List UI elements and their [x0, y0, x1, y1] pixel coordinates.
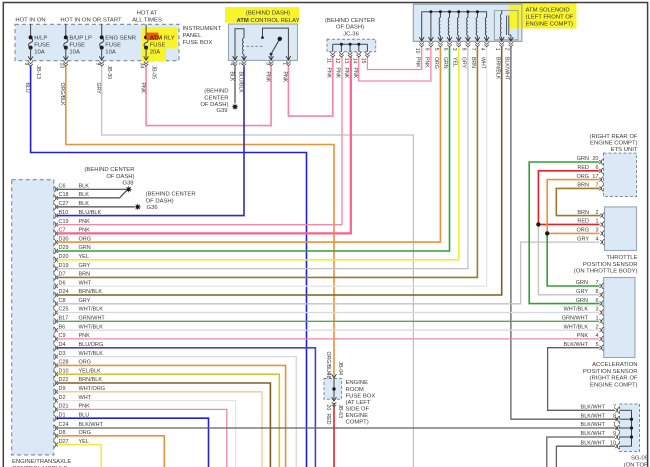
svg-text:ENGINE COMPT): ENGINE COMPT) — [590, 141, 637, 147]
svg-text:PNK: PNK — [577, 333, 589, 339]
svg-text:BLK: BLK — [79, 192, 90, 198]
svg-text:20A: 20A — [150, 50, 161, 56]
svg-text:G39: G39 — [216, 108, 227, 114]
svg-text:D21: D21 — [59, 404, 69, 410]
svg-text:14: 14 — [352, 58, 358, 64]
svg-text:4: 4 — [228, 62, 234, 65]
svg-text:D24: D24 — [59, 289, 69, 295]
svg-text:3: 3 — [595, 307, 598, 313]
svg-text:PNK: PNK — [282, 72, 288, 83]
svg-text:GRN/WHT: GRN/WHT — [562, 316, 589, 322]
svg-text:ORG: ORG — [79, 430, 92, 436]
svg-text:C8: C8 — [59, 298, 66, 304]
svg-text:PNK: PNK — [79, 333, 91, 339]
svg-text:BLK/WHT: BLK/WHT — [581, 431, 606, 437]
svg-text:OF DASH): OF DASH) — [200, 102, 228, 108]
svg-text:D2: D2 — [59, 395, 66, 401]
svg-text:2: 2 — [595, 210, 598, 216]
svg-text:9: 9 — [613, 431, 616, 437]
svg-text:GRY: GRY — [95, 83, 101, 95]
svg-text:GRN: GRN — [79, 245, 91, 251]
svg-text:FUSE BOX: FUSE BOX — [183, 40, 213, 46]
svg-text:ENGINE/TRANSAXLE: ENGINE/TRANSAXLE — [12, 459, 71, 465]
svg-text:34: 34 — [139, 63, 145, 69]
svg-text:(ON TOP: (ON TOP — [624, 462, 648, 467]
svg-text:1: 1 — [595, 219, 598, 225]
svg-text:G36: G36 — [147, 205, 159, 211]
svg-text:OF DASH): OF DASH) — [106, 174, 134, 180]
svg-text:FUSE: FUSE — [150, 43, 166, 49]
svg-text:BLK/WHT: BLK/WHT — [79, 422, 104, 428]
svg-text:JB-05: JB-05 — [150, 66, 156, 80]
svg-text:4: 4 — [595, 333, 598, 339]
svg-text:BLK/WHT: BLK/WHT — [504, 57, 510, 81]
svg-text:(BEHIND CENTER: (BEHIND CENTER — [84, 167, 134, 173]
svg-text:GRN: GRN — [576, 280, 588, 286]
svg-text:GRN: GRN — [577, 156, 589, 162]
svg-text:C19: C19 — [59, 219, 69, 225]
svg-text:YEL/BLK: YEL/BLK — [79, 368, 102, 374]
svg-text:4: 4 — [595, 236, 598, 242]
svg-text:ACCELERATION: ACCELERATION — [592, 362, 637, 368]
svg-text:BLU/BLK: BLU/BLK — [237, 72, 243, 94]
svg-text:10A: 10A — [34, 50, 45, 56]
svg-text:FUSE: FUSE — [69, 43, 85, 49]
svg-text:YEL: YEL — [79, 254, 89, 260]
svg-text:6: 6 — [595, 165, 598, 171]
svg-text:GRY: GRY — [576, 289, 588, 295]
svg-text:ENG SENR: ENG SENR — [105, 36, 136, 42]
svg-text:BRN: BRN — [577, 183, 589, 189]
svg-text:D6: D6 — [59, 280, 66, 286]
svg-text:PNK: PNK — [343, 68, 349, 79]
svg-text:WHT/BLK: WHT/BLK — [79, 351, 104, 357]
svg-text:BRN: BRN — [470, 57, 476, 68]
svg-text:HOT IN ON: HOT IN ON — [15, 18, 45, 24]
svg-text:13: 13 — [343, 58, 349, 64]
svg-text:ETS UNIT: ETS UNIT — [611, 147, 638, 153]
svg-text:10A: 10A — [105, 50, 116, 56]
svg-text:JC-36: JC-36 — [343, 32, 359, 38]
svg-text:3: 3 — [451, 48, 457, 51]
svg-text:11: 11 — [325, 58, 331, 63]
svg-text:ORG: ORG — [576, 228, 589, 234]
svg-text:7: 7 — [595, 280, 598, 286]
svg-text:B/UP LP: B/UP LP — [69, 36, 92, 42]
svg-text:JB-63: JB-63 — [337, 405, 343, 419]
svg-text:G38: G38 — [122, 181, 134, 187]
svg-text:PNK: PNK — [264, 72, 270, 83]
svg-text:10: 10 — [58, 63, 64, 69]
svg-text:RED: RED — [577, 219, 589, 225]
svg-text:1: 1 — [595, 316, 598, 322]
svg-text:7: 7 — [595, 183, 598, 189]
svg-text:GRY: GRY — [577, 236, 589, 242]
svg-text:D9: D9 — [59, 386, 66, 392]
svg-text:RED: RED — [325, 414, 331, 425]
svg-text:WHT/BLK: WHT/BLK — [564, 307, 589, 313]
svg-text:1: 1 — [282, 62, 288, 65]
svg-text:PNK: PNK — [79, 228, 91, 234]
svg-text:HOT IN ON OR START: HOT IN ON OR START — [60, 18, 122, 24]
svg-text:(BEHIND CENTER: (BEHIND CENTER — [146, 192, 196, 198]
svg-text:OF DASH): OF DASH) — [336, 25, 364, 31]
svg-text:9: 9 — [23, 63, 29, 66]
svg-text:(ON THROTTLE BODY): (ON THROTTLE BODY) — [574, 269, 638, 275]
svg-text:H/LP: H/LP — [34, 36, 47, 42]
svg-text:C28: C28 — [59, 360, 69, 366]
svg-text:INSTRUMENT: INSTRUMENT — [183, 26, 222, 32]
svg-text:ENGINE: ENGINE — [346, 380, 369, 386]
svg-text:B17: B17 — [59, 316, 69, 322]
svg-text:SG-09: SG-09 — [631, 456, 648, 462]
svg-text:ATM RLY: ATM RLY — [150, 36, 175, 42]
svg-text:YEL: YEL — [451, 57, 457, 67]
svg-text:20: 20 — [325, 405, 331, 411]
svg-text:(AT LEFT: (AT LEFT — [346, 400, 371, 406]
svg-text:BLU: BLU — [24, 83, 30, 93]
svg-text:ENGINE COMPT): ENGINE COMPT) — [526, 22, 573, 28]
svg-text:PNK: PNK — [334, 68, 340, 79]
svg-text:GRN/WHT: GRN/WHT — [79, 316, 106, 322]
svg-text:PNK: PNK — [414, 57, 420, 68]
svg-text:BLK/WHT: BLK/WHT — [564, 342, 589, 348]
svg-text:BLU/BLK: BLU/BLK — [79, 210, 102, 216]
svg-text:BRN/BLK: BRN/BLK — [494, 57, 500, 80]
svg-text:FUSE BOX: FUSE BOX — [346, 393, 376, 399]
svg-text:D1: D1 — [59, 412, 66, 418]
svg-text:ORG/BLK: ORG/BLK — [59, 83, 65, 107]
svg-text:ORG: ORG — [79, 360, 92, 366]
svg-text:PNK: PNK — [352, 68, 358, 79]
svg-text:ORG/BLK: ORG/BLK — [325, 352, 331, 376]
svg-text:OF DASH): OF DASH) — [146, 198, 174, 204]
svg-text:COMPT): COMPT) — [346, 420, 369, 426]
svg-text:FUSE: FUSE — [105, 43, 121, 49]
svg-text:17: 17 — [592, 174, 598, 180]
svg-text:THROTTLE: THROTTLE — [606, 255, 637, 261]
svg-text:BLK: BLK — [79, 184, 90, 190]
svg-text:ENGINE: ENGINE — [346, 413, 369, 419]
svg-text:B10: B10 — [59, 210, 69, 216]
svg-text:3: 3 — [264, 62, 270, 65]
svg-text:D30: D30 — [59, 236, 69, 242]
svg-text:ORG: ORG — [433, 57, 439, 69]
svg-text:D22: D22 — [59, 377, 69, 383]
svg-text:BLK/WHT: BLK/WHT — [581, 422, 606, 428]
svg-text:RED: RED — [577, 165, 589, 171]
svg-text:C24: C24 — [59, 422, 69, 428]
svg-text:1: 1 — [613, 422, 616, 428]
svg-text:(RIGHT REAR OF: (RIGHT REAR OF — [590, 376, 638, 382]
svg-text:POSITION SENSOR: POSITION SENSOR — [583, 369, 638, 375]
svg-text:10A: 10A — [69, 50, 80, 56]
svg-text:GRN: GRN — [442, 57, 448, 69]
svg-text:CENTER: CENTER — [204, 95, 228, 101]
svg-text:9: 9 — [94, 63, 100, 66]
svg-text:BLK/WHT: BLK/WHT — [581, 413, 606, 419]
svg-text:WHT: WHT — [79, 280, 92, 286]
svg-text:D27: D27 — [59, 439, 69, 445]
svg-text:HOT AT: HOT AT — [137, 11, 158, 17]
svg-text:GRY: GRY — [79, 263, 91, 269]
svg-text:ROOM: ROOM — [346, 387, 364, 393]
svg-text:(BEHIND: (BEHIND — [204, 89, 228, 95]
svg-text:D20: D20 — [59, 254, 69, 260]
svg-text:POSITION SENSOR: POSITION SENSOR — [583, 262, 638, 268]
svg-text:WHT/BLK: WHT/BLK — [79, 324, 104, 330]
svg-text:PNK: PNK — [139, 83, 145, 94]
svg-text:JB-13: JB-13 — [35, 66, 41, 80]
svg-text:9: 9 — [423, 48, 429, 51]
svg-text:GRY: GRY — [79, 298, 91, 304]
svg-text:1: 1 — [494, 48, 500, 51]
svg-text:PANEL: PANEL — [183, 33, 203, 39]
svg-text:2: 2 — [237, 62, 243, 65]
svg-text:BLU/ORG: BLU/ORG — [79, 342, 104, 348]
svg-text:20: 20 — [592, 156, 598, 162]
svg-text:ATM CONTROL RELAY: ATM CONTROL RELAY — [236, 18, 299, 24]
svg-text:WHT/BLK: WHT/BLK — [564, 324, 589, 330]
svg-text:D4: D4 — [59, 342, 66, 348]
svg-text:WHT: WHT — [479, 57, 485, 70]
svg-text:WHT/BLK: WHT/BLK — [79, 307, 104, 313]
svg-text:6: 6 — [595, 298, 598, 304]
svg-text:C27: C27 — [59, 201, 69, 207]
svg-text:BLK/WHT: BLK/WHT — [581, 405, 606, 411]
svg-text:48: 48 — [325, 373, 331, 379]
svg-text:8: 8 — [595, 289, 598, 295]
svg-text:(BEHIND DASH): (BEHIND DASH) — [246, 11, 290, 17]
svg-text:JB-04: JB-04 — [337, 362, 343, 376]
svg-text:FUSE: FUSE — [34, 43, 50, 49]
svg-text:D29: D29 — [59, 245, 69, 251]
svg-text:D3: D3 — [59, 351, 66, 357]
svg-text:2: 2 — [595, 324, 598, 330]
svg-text:ATM SOLENOID: ATM SOLENOID — [526, 8, 570, 14]
svg-text:PNK: PNK — [79, 219, 91, 225]
svg-text:C25: C25 — [59, 307, 69, 313]
svg-text:BLU: BLU — [79, 412, 90, 418]
svg-text:C6: C6 — [59, 184, 66, 190]
svg-text:D7: D7 — [59, 272, 66, 278]
svg-text:C18: C18 — [59, 192, 69, 198]
svg-text:BRN/BLK: BRN/BLK — [79, 377, 103, 383]
svg-text:BLK/WHT: BLK/WHT — [581, 440, 606, 446]
svg-text:15: 15 — [360, 58, 366, 64]
svg-text:BRN: BRN — [79, 272, 91, 278]
svg-text:JB-30: JB-30 — [106, 66, 112, 80]
svg-text:BLK: BLK — [79, 201, 90, 207]
svg-text:D19: D19 — [59, 263, 69, 269]
svg-text:8: 8 — [613, 413, 616, 419]
svg-text:6: 6 — [442, 48, 448, 51]
svg-text:10: 10 — [414, 48, 420, 54]
svg-text:7: 7 — [470, 48, 476, 51]
svg-text:5: 5 — [595, 342, 598, 348]
svg-text:10: 10 — [610, 440, 616, 446]
svg-text:WHT: WHT — [79, 395, 92, 401]
svg-text:12: 12 — [334, 58, 340, 64]
svg-text:D10: D10 — [59, 368, 69, 374]
svg-text:GRN: GRN — [576, 298, 588, 304]
svg-text:7: 7 — [613, 405, 616, 411]
svg-text:(RIGHT REAR OF: (RIGHT REAR OF — [590, 134, 638, 140]
svg-text:BRN: BRN — [577, 210, 589, 216]
svg-text:2: 2 — [503, 48, 509, 51]
svg-text:3: 3 — [595, 228, 598, 234]
svg-text:BLK: BLK — [228, 72, 234, 82]
svg-text:C7: C7 — [59, 228, 66, 234]
svg-text:(LEFT FRONT OF: (LEFT FRONT OF — [526, 15, 574, 21]
svg-text:ORG: ORG — [576, 174, 589, 180]
svg-text:BRN/BLK: BRN/BLK — [79, 289, 103, 295]
svg-text:YEL: YEL — [79, 439, 89, 445]
svg-text:B6: B6 — [59, 324, 66, 330]
svg-text:WHT/ORG: WHT/ORG — [79, 386, 106, 392]
svg-text:5: 5 — [433, 48, 439, 51]
svg-text:PNK: PNK — [79, 404, 91, 410]
svg-text:(BEHIND CENTER: (BEHIND CENTER — [325, 18, 375, 24]
svg-text:ORG: ORG — [79, 236, 92, 242]
svg-text:ALL TIMES: ALL TIMES — [132, 18, 162, 24]
svg-text:PNK: PNK — [326, 68, 332, 79]
svg-text:4: 4 — [479, 48, 485, 51]
svg-text:D8: D8 — [59, 430, 66, 436]
svg-text:GRY: GRY — [461, 57, 467, 69]
svg-text:SIDE OF: SIDE OF — [346, 406, 370, 412]
svg-text:PNK: PNK — [424, 57, 430, 68]
svg-text:8: 8 — [460, 48, 466, 51]
svg-text:C9: C9 — [59, 333, 66, 339]
svg-text:ENGINE COMPT): ENGINE COMPT) — [590, 382, 637, 388]
